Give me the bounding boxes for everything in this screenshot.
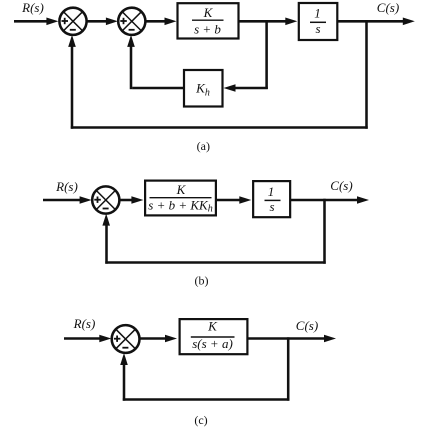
wire output line with arrow (c) xyxy=(247,335,336,343)
node C(s) label (b) xyxy=(330,178,352,193)
wire junction to block (c) xyxy=(140,335,178,343)
node R(s) label (b) xyxy=(55,179,78,194)
summing junction (b) xyxy=(92,186,119,213)
block 1/s (b) xyxy=(253,181,290,217)
svg-text:s + b: s + b xyxy=(194,22,221,37)
caption (c) xyxy=(194,413,207,427)
wire Kh to junction2 feedback (a) xyxy=(127,35,184,89)
svg-text:1: 1 xyxy=(268,184,275,199)
summing junction (c) xyxy=(112,325,140,353)
wire feedback up into junction (b) xyxy=(102,214,110,264)
node R(s) label (c) xyxy=(73,316,96,331)
svg-text:C(s): C(s) xyxy=(296,318,318,333)
wire inner feedback into Kh (a) xyxy=(224,84,268,92)
svg-text:(b): (b) xyxy=(195,274,209,288)
wire outer feedback takeoff down (a) xyxy=(365,20,368,129)
wire input arrow (a) xyxy=(14,18,58,26)
block K/(s(s+a)) (c) xyxy=(180,319,248,355)
svg-text:C(s): C(s) xyxy=(330,178,352,193)
wire block to block 1/s (b) xyxy=(215,196,251,204)
svg-text:(a): (a) xyxy=(197,139,210,153)
wire output line with arrow (b) xyxy=(291,196,369,204)
svg-text:1: 1 xyxy=(314,6,321,21)
wire feedback bottom (c) xyxy=(123,398,290,401)
wire input arrow (b) xyxy=(43,196,92,204)
wire feedback takeoff down (b) xyxy=(323,199,326,264)
wire inner feedback takeoff down (a) xyxy=(265,20,268,89)
caption (b) xyxy=(195,274,209,288)
wire junction2 to block K/(s+b) xyxy=(145,18,176,26)
svg-text:R(s): R(s) xyxy=(55,179,78,194)
wire feedback bottom (b) xyxy=(105,261,325,264)
block 1/s (a) xyxy=(299,3,338,40)
summing junction 2 (a) xyxy=(118,8,145,35)
svg-text:K: K xyxy=(203,5,214,20)
svg-text:K: K xyxy=(176,182,187,197)
block Kh (a) xyxy=(184,70,223,107)
svg-text:s(s + a): s(s + a) xyxy=(192,336,233,351)
wire input arrow (c) xyxy=(64,335,111,343)
wire junction to block (b) xyxy=(119,196,143,204)
block K/(s+b+KKh) (b) xyxy=(145,181,216,216)
node C(s) label (a) xyxy=(377,0,399,15)
wire output line with arrow (a) xyxy=(337,18,415,26)
svg-text:Kh: Kh xyxy=(195,81,210,99)
block K/(s+b) (a) xyxy=(178,3,239,38)
summing junction 1 (a) xyxy=(59,8,86,35)
wire feedback takeoff down (c) xyxy=(287,337,290,400)
node R(s) label (a) xyxy=(21,0,44,15)
caption (a) xyxy=(197,139,210,153)
wire junction1 to junction2 (a) xyxy=(87,18,118,26)
svg-text:s: s xyxy=(269,199,274,214)
svg-text:s: s xyxy=(315,21,320,36)
wire block K/(s+b) to block 1/s (a) xyxy=(239,18,298,26)
svg-text:R(s): R(s) xyxy=(73,316,96,331)
wire outer feedback up into junction1 (a) xyxy=(68,35,76,129)
svg-text:(c): (c) xyxy=(194,413,207,427)
wire feedback up into junction (c) xyxy=(120,353,128,401)
node C(s) label (c) xyxy=(296,318,318,333)
svg-text:R(s): R(s) xyxy=(21,0,44,15)
svg-text:C(s): C(s) xyxy=(377,0,399,15)
svg-text:s + b + KKh: s + b + KKh xyxy=(148,197,212,214)
wire outer feedback bottom (a) xyxy=(71,126,368,129)
svg-text:K: K xyxy=(207,319,218,334)
